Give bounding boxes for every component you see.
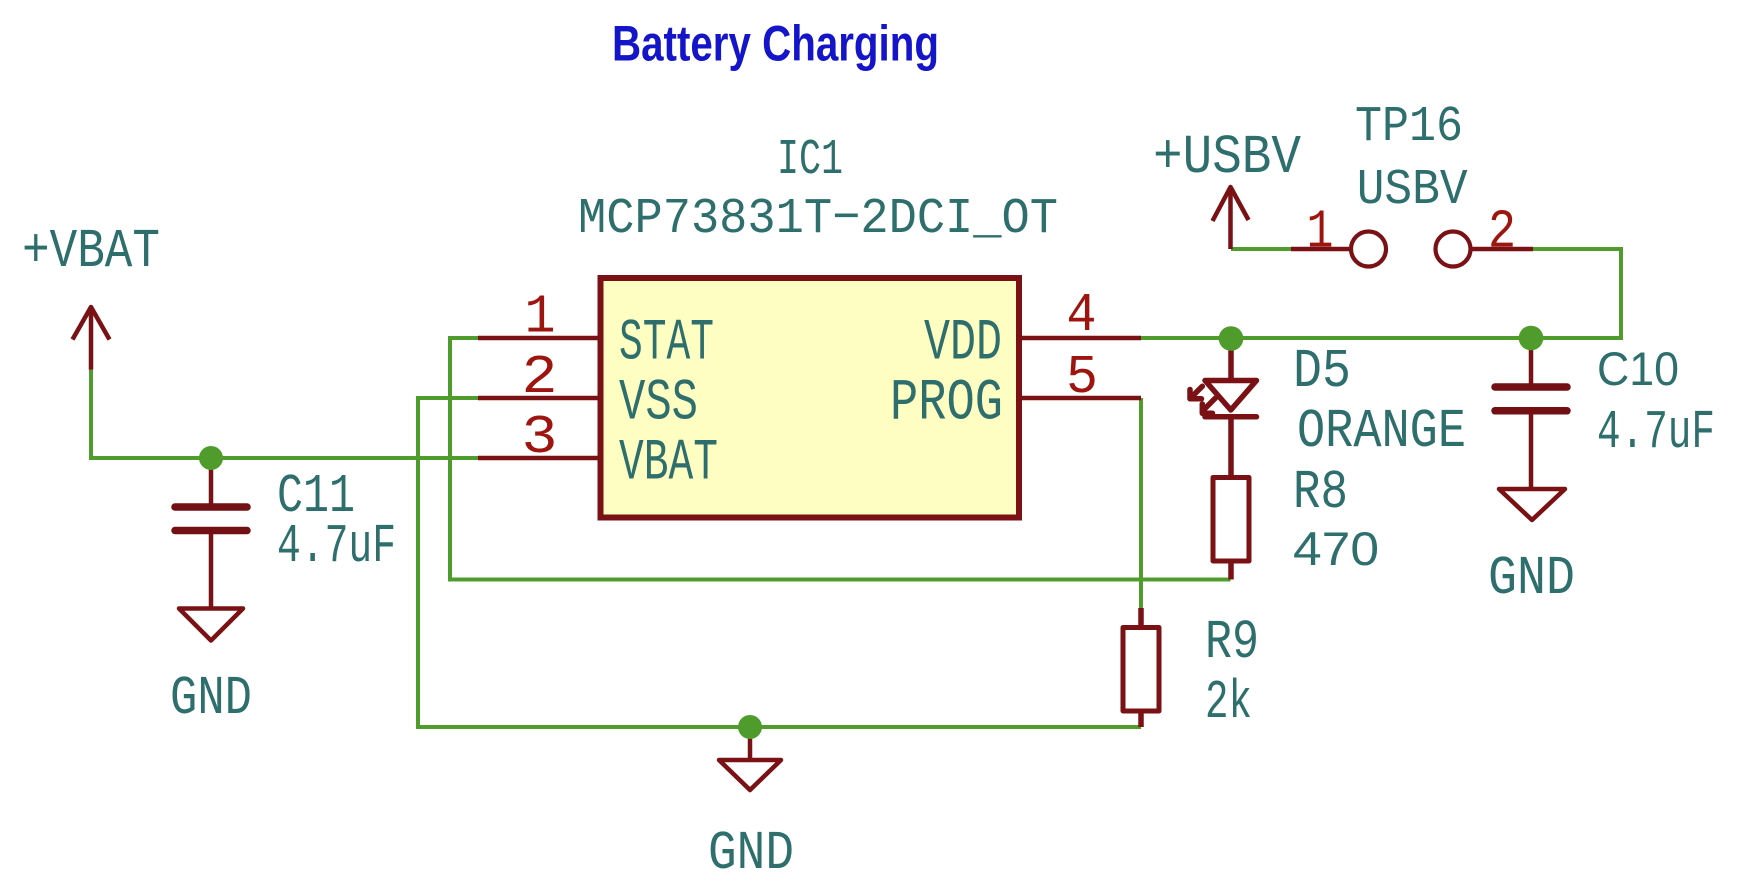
svg-text:R9: R9 — [1205, 611, 1259, 674]
svg-text:PROG: PROG — [890, 372, 1003, 437]
svg-text:VBAT: VBAT — [619, 432, 718, 497]
svg-text:TP16: TP16 — [1355, 99, 1463, 156]
svg-text:1: 1 — [1307, 201, 1334, 264]
svg-text:GND: GND — [170, 667, 252, 730]
svg-text:4: 4 — [1067, 284, 1097, 347]
svg-text:2k: 2k — [1205, 671, 1252, 734]
svg-text:3: 3 — [522, 406, 558, 469]
svg-text:2: 2 — [522, 346, 558, 409]
svg-text:GND: GND — [1488, 547, 1575, 610]
svg-text:4.7uF: 4.7uF — [277, 515, 396, 578]
svg-text:IC1: IC1 — [777, 132, 843, 189]
svg-text:C10: C10 — [1597, 342, 1679, 395]
svg-text:VSS: VSS — [619, 372, 698, 437]
svg-text:MCP73831T−2DCI_OT: MCP73831T−2DCI_OT — [578, 191, 1058, 248]
svg-text:+USBV: +USBV — [1153, 126, 1301, 189]
svg-text:5: 5 — [1066, 346, 1098, 409]
svg-text:ORANGE: ORANGE — [1297, 400, 1466, 463]
svg-text:STAT: STAT — [619, 312, 714, 377]
svg-text:470: 470 — [1293, 522, 1379, 575]
svg-text:R8: R8 — [1293, 461, 1348, 524]
svg-text:GND: GND — [708, 822, 794, 885]
svg-text:+VBAT: +VBAT — [22, 220, 160, 283]
svg-text:VDD: VDD — [924, 312, 1002, 377]
svg-text:USBV: USBV — [1357, 162, 1468, 219]
svg-text:Battery Charging: Battery Charging — [612, 16, 939, 72]
svg-text:4.7uF: 4.7uF — [1597, 401, 1715, 464]
svg-text:D5: D5 — [1293, 340, 1351, 403]
svg-text:1: 1 — [525, 286, 556, 349]
svg-text:2: 2 — [1488, 201, 1516, 264]
